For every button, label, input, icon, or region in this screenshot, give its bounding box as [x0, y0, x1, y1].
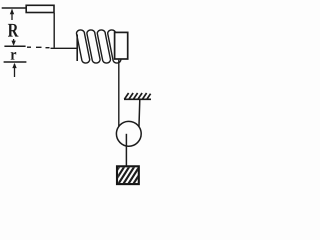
- hanger wire from ceiling to pulley: [139, 99, 140, 132]
- dimension arrow down (R bottom): [11, 39, 15, 46]
- label R: [8, 24, 19, 37]
- axle level tick line: [4, 45, 25, 47]
- spring left end plate: [76, 35, 78, 62]
- drop link wire from bar: [53, 13, 55, 48]
- label r: [11, 52, 17, 60]
- block on spring: [115, 32, 128, 59]
- mass hatching: [107, 164, 151, 186]
- cord from pulley axle to mass: [125, 134, 127, 166]
- dimension extension line top: [2, 7, 26, 9]
- dimension arrow up (R top): [10, 9, 14, 20]
- pulley wheel: [116, 121, 141, 146]
- cord from block down to pulley: [118, 60, 120, 133]
- lever bar (horizontal rod): [26, 5, 54, 12]
- ceiling hatching: [124, 93, 150, 99]
- ceiling support line: [124, 98, 151, 100]
- spring coil: [77, 30, 121, 63]
- dimension arrow up (below r line): [12, 63, 16, 77]
- lower tick line (r bottom): [4, 61, 27, 63]
- dashed axle centerline: [27, 46, 50, 49]
- axis wire to spring: [51, 47, 78, 49]
- hanging mass block: [117, 166, 139, 184]
